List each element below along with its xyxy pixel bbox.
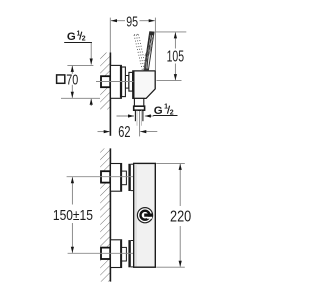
concealed elbow square (upper) — [101, 171, 110, 182]
union nut (upper) — [130, 164, 134, 191]
union collar (lower) — [122, 247, 127, 261]
union nut (top view) — [129, 72, 133, 91]
centerline lower connection — [68, 252, 134, 254]
lever handle (alternate position, dashed) — [134, 34, 146, 70]
union collar (upper) — [122, 171, 127, 185]
escutcheon (upper) — [111, 164, 122, 192]
dimension 62 (below top view) — [98, 124, 158, 141]
outlet collar band — [134, 106, 145, 110]
svg-text:70: 70 — [66, 72, 78, 88]
dimension 220 (right of front view) — [156, 163, 193, 267]
wall (top view, hatched) — [100, 53, 110, 136]
centerline upper connection — [67, 176, 134, 178]
escutcheon (lower) — [111, 240, 122, 268]
outlet pipe (G1/2 thread) — [135, 110, 143, 121]
svg-text:95: 95 — [126, 15, 138, 31]
GROHE logo on body — [137, 208, 152, 223]
svg-text:2: 2 — [82, 35, 86, 42]
concealed elbow square (lower) — [101, 248, 110, 259]
union nut (lower) — [130, 240, 134, 267]
wall (front view, hatched) — [100, 148, 110, 281]
lever handle (solid position, hatched) — [144, 32, 154, 71]
svg-text:G: G — [67, 31, 76, 43]
mixer body (front view) — [134, 163, 156, 267]
dimension 105 (right of top view) — [155, 32, 186, 81]
svg-text:1: 1 — [77, 30, 81, 37]
lever tip cap — [149, 32, 154, 36]
pipe centerline extension (62 dim right reference) — [139, 111, 141, 136]
dimension 150±15 (left of front view) — [52, 177, 94, 253]
centerline (top view, pipe axis) — [96, 81, 133, 83]
svg-text:150±15: 150±15 — [53, 207, 93, 224]
label G 1/2 (outlet) with thread arrows — [117, 103, 178, 117]
svg-text:105: 105 — [167, 48, 184, 65]
label G 1/2 (upper inlet) — [64, 30, 92, 64]
svg-text:220: 220 — [170, 209, 191, 226]
escutcheon plate (top view) — [111, 65, 122, 98]
dimension 95 (top) — [110, 15, 155, 71]
escutcheon second plate (top view) — [122, 67, 126, 97]
union collar (top view) — [126, 76, 129, 89]
svg-text:62: 62 — [118, 124, 130, 141]
svg-text:1: 1 — [164, 103, 168, 110]
concealed elbow square (top view) — [101, 76, 110, 87]
dimension square-70 (left of top view) — [57, 65, 100, 106]
outlet stub (top view) — [134, 98, 143, 106]
lever boss (dark base) — [143, 69, 148, 71]
valve body (top view, chamfered) — [133, 71, 155, 99]
